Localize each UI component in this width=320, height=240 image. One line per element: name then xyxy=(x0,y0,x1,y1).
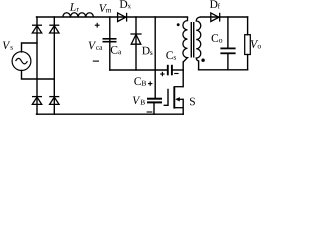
wire secondary top rail xyxy=(200,16,247,18)
wire primary bottom to drain xyxy=(182,62,184,87)
inductor Lr xyxy=(63,13,94,17)
diode D3 bridge bottom-left xyxy=(32,97,42,105)
diode D1 bridge top-left xyxy=(32,25,42,33)
wire Co bottom stem xyxy=(227,54,229,70)
label CB xyxy=(134,77,146,85)
label - (VB) xyxy=(147,111,153,113)
wire Ds leg xyxy=(135,17,137,70)
label Lr xyxy=(70,3,79,11)
label S xyxy=(190,98,195,106)
resistor load box xyxy=(245,35,251,55)
wire bottom rail xyxy=(37,113,184,115)
wire load bottom lead xyxy=(247,55,249,70)
node Vm label xyxy=(99,4,111,12)
label Dx xyxy=(120,0,131,8)
wire source to ground rail xyxy=(182,99,184,114)
label + (Cs) xyxy=(160,72,164,76)
transformer core xyxy=(191,22,193,58)
label VB xyxy=(133,96,145,104)
wire load top lead xyxy=(247,17,249,35)
capacitor Cs xyxy=(168,65,172,76)
label Ds xyxy=(142,47,152,55)
wire clamp rail xyxy=(110,69,167,71)
wire rail to CB xyxy=(154,17,156,98)
diode Dx xyxy=(118,13,127,22)
wire top rail xyxy=(37,16,188,18)
diode D4 bridge bottom-right xyxy=(49,97,59,105)
wire Ca stem xyxy=(109,17,111,70)
primary dot xyxy=(177,23,180,26)
label Cs xyxy=(166,51,176,59)
label Df xyxy=(210,0,220,8)
label Co xyxy=(212,34,223,42)
wire secondary bottom lead xyxy=(198,61,200,70)
label + (CB) xyxy=(148,81,152,85)
capacitor Ca xyxy=(103,39,117,42)
secondary dot xyxy=(201,59,204,62)
transformer secondary winding xyxy=(196,17,201,61)
diode D2 bridge top-right xyxy=(49,25,59,33)
wire source top lead xyxy=(22,43,38,52)
diode Ds xyxy=(130,34,141,44)
wire bridge left leg xyxy=(36,17,38,114)
label - (Cs) xyxy=(174,73,178,75)
wire CB bottom stem xyxy=(153,103,155,114)
capacitor Co xyxy=(220,48,235,53)
label - (Vca) xyxy=(93,60,99,62)
AC source Vs xyxy=(12,52,31,71)
label Vca xyxy=(89,42,103,50)
wire Cs to drain xyxy=(172,69,183,71)
transistor S (MOSFET) xyxy=(164,89,168,106)
capacitor CB xyxy=(147,99,162,103)
wire output return xyxy=(199,69,248,71)
label Vs xyxy=(3,41,13,49)
label Ca xyxy=(111,46,121,54)
transformer primary winding xyxy=(183,17,188,62)
wire bridge right leg xyxy=(53,17,55,114)
wire source bottom lead xyxy=(22,70,55,79)
label Vo xyxy=(251,40,261,48)
label + (Vca) xyxy=(95,23,100,28)
diode Df xyxy=(211,13,220,22)
wire Co top stem xyxy=(227,17,229,48)
